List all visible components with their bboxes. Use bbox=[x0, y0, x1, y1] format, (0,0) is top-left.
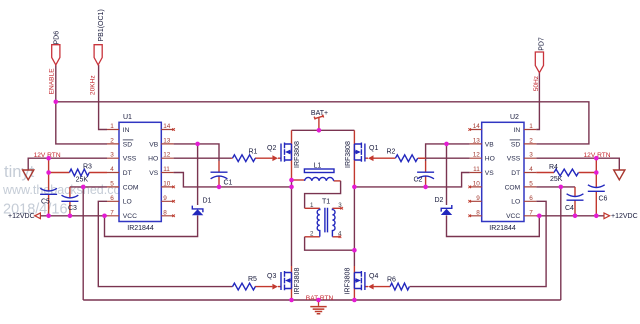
svg-text:2: 2 bbox=[529, 137, 533, 144]
wire 50Hz from PD7 port to U2 pin1 IN bbox=[536, 73, 539, 130]
transistor Q1 IRF3808 bbox=[345, 141, 378, 168]
wire U2 VS to phase B node bbox=[354, 173, 469, 187]
svg-text:DT: DT bbox=[511, 170, 520, 177]
no-connect tick U2 pin9 bbox=[468, 200, 471, 203]
IC U1 IR21844 body bbox=[119, 114, 161, 232]
svg-text:C5: C5 bbox=[41, 199, 50, 206]
diode D1 zener bbox=[192, 198, 212, 216]
capacitor C3 bbox=[61, 195, 78, 212]
wire D1 anode return to VCC bbox=[105, 215, 198, 236]
svg-text:PD7: PD7 bbox=[539, 37, 546, 51]
connector port PD6 bbox=[48, 31, 60, 95]
U1 SD overline bbox=[123, 139, 134, 141]
U2 pin names bbox=[485, 127, 521, 220]
resistor R4 25K bbox=[549, 164, 578, 183]
wire U2 VB to C2 riser bbox=[426, 144, 470, 161]
svg-text:1: 1 bbox=[310, 202, 314, 209]
svg-text:SD: SD bbox=[123, 141, 132, 148]
IC U2 IR21844 body bbox=[482, 114, 524, 232]
svg-text:8: 8 bbox=[163, 209, 167, 216]
svg-text:10: 10 bbox=[473, 180, 481, 187]
no-connect tick U2 pin8 bbox=[468, 215, 471, 218]
svg-text:3: 3 bbox=[529, 152, 533, 159]
svg-text:IN: IN bbox=[123, 127, 130, 134]
svg-text:BAT+: BAT+ bbox=[311, 110, 328, 117]
svg-text:8: 8 bbox=[476, 209, 480, 216]
svg-text:3: 3 bbox=[110, 152, 114, 159]
wire ENABLE vertical from PD6 port to U1 pin2 SD bbox=[56, 65, 107, 144]
resistor R1 bbox=[233, 149, 258, 162]
no-connect tick U2 pin10 bbox=[468, 186, 471, 189]
svg-text:HO: HO bbox=[485, 156, 495, 163]
resistor R2 bbox=[387, 149, 418, 162]
svg-text:5: 5 bbox=[110, 180, 114, 187]
svg-text:VSS: VSS bbox=[507, 156, 521, 163]
wire R1 to Q2 gate bbox=[255, 157, 281, 159]
wire U1 DT R3 row bbox=[49, 172, 107, 174]
connector port PB1(OC1) bbox=[90, 9, 105, 95]
svg-text:11: 11 bbox=[163, 166, 170, 173]
svg-text:+12VDC: +12VDC bbox=[8, 213, 35, 220]
svg-text:VCC: VCC bbox=[123, 213, 137, 220]
capacitor C1 bbox=[211, 172, 233, 186]
svg-text:IRF3808: IRF3808 bbox=[294, 141, 301, 168]
wire U2 LO to R6 bbox=[410, 201, 546, 286]
svg-text:LO: LO bbox=[123, 199, 132, 206]
wire phase B vertical Q1 to Q4 bbox=[353, 130, 355, 187]
svg-text:7: 7 bbox=[110, 209, 114, 216]
svg-text:DT: DT bbox=[123, 170, 132, 177]
svg-text:U1: U1 bbox=[123, 114, 132, 121]
wire U1 HO to R1 bbox=[174, 157, 231, 159]
svg-text:tinyt: tinyt bbox=[4, 163, 35, 181]
svg-text:C3: C3 bbox=[68, 205, 77, 212]
svg-text:VB: VB bbox=[149, 141, 158, 148]
no-connect tick U1 pin9 bbox=[172, 200, 175, 203]
svg-text:HO: HO bbox=[148, 156, 158, 163]
wire BAT RTN bottom bus bbox=[83, 299, 561, 301]
no-connect tick U1 pin14 bbox=[172, 128, 175, 131]
wire 12V RTN left to U1 pin3 VSS bbox=[28, 158, 107, 170]
resistor R3 25K bbox=[69, 164, 92, 184]
capacitor C3 leads bbox=[69, 187, 71, 216]
capacitor C6 leads bbox=[595, 158, 597, 216]
svg-text:4: 4 bbox=[110, 166, 114, 173]
svg-text:C4: C4 bbox=[565, 205, 574, 212]
wire R2 right lead bbox=[418, 157, 426, 159]
svg-text:VCC: VCC bbox=[506, 213, 520, 220]
svg-text:R3: R3 bbox=[83, 164, 92, 171]
svg-text:2: 2 bbox=[310, 230, 314, 237]
svg-text:Q2: Q2 bbox=[267, 145, 276, 152]
U1 pin numbers right bbox=[163, 123, 171, 216]
power port BAT+ bbox=[311, 110, 328, 120]
svg-text:C2: C2 bbox=[414, 177, 423, 184]
svg-text:IN: IN bbox=[514, 127, 521, 134]
wire U1 VS to phase A node bbox=[174, 173, 292, 187]
svg-text:R2: R2 bbox=[387, 149, 396, 156]
svg-text:14: 14 bbox=[473, 123, 481, 130]
svg-text:VS: VS bbox=[149, 170, 158, 177]
capacitor C1 lead bbox=[218, 175, 220, 187]
svg-text:1: 1 bbox=[110, 123, 114, 130]
wire U2 COM riser down to BAT RTN bus bbox=[560, 187, 562, 300]
capacitor C4 leads bbox=[574, 187, 576, 216]
wire D2 anode return to VCC bbox=[447, 215, 540, 236]
U2 pin stubs right 1-7 bbox=[524, 130, 536, 216]
svg-text:10: 10 bbox=[163, 180, 171, 187]
wire U2 DT R4 row bbox=[536, 172, 596, 174]
svg-text:T1: T1 bbox=[322, 198, 330, 205]
wire T1 pin2 to phase B node bbox=[305, 237, 355, 250]
svg-text:LO: LO bbox=[511, 199, 520, 206]
power port 12V RTN right arrow bbox=[584, 152, 625, 180]
svg-text:20KHz: 20KHz bbox=[90, 75, 97, 95]
wire U1 COM to C3 bbox=[70, 186, 107, 188]
capacitor C2 lead bbox=[425, 175, 427, 187]
svg-text:Q4: Q4 bbox=[369, 273, 378, 280]
power port +12VDC right bbox=[604, 213, 638, 220]
U2 SD overline bbox=[510, 139, 521, 141]
svg-text:VS: VS bbox=[485, 170, 494, 177]
no-connect tick U1 pin8 bbox=[172, 215, 175, 218]
U2 pin stubs left 14-8 bbox=[470, 130, 482, 216]
svg-text:COM: COM bbox=[505, 184, 521, 191]
transistor Q2 IRF3808 bbox=[267, 141, 301, 168]
wire BAT+ stub bbox=[318, 118, 320, 131]
wire R5 to Q3 gate bbox=[255, 286, 281, 288]
svg-text:IRF3808: IRF3808 bbox=[345, 268, 352, 295]
transistor Q3 IRF3808 bbox=[267, 268, 301, 295]
svg-text:Q1: Q1 bbox=[369, 145, 378, 152]
svg-text:1: 1 bbox=[529, 123, 533, 130]
svg-text:13: 13 bbox=[473, 137, 481, 144]
svg-text:PB1(OC1): PB1(OC1) bbox=[98, 9, 105, 41]
no-connect tick U1 pin10 bbox=[172, 186, 175, 189]
wire ENABLE/SD bus across top to U2 pin2 SD bbox=[56, 102, 589, 144]
svg-text:R6: R6 bbox=[387, 277, 396, 284]
transistor Q4 IRF3808 bbox=[345, 268, 379, 295]
wire T1 pin1 lead bbox=[305, 207, 320, 209]
resistor R5 bbox=[233, 276, 258, 290]
wire U2 HO to R2 bbox=[419, 157, 470, 159]
svg-text:U2: U2 bbox=[510, 114, 519, 121]
wire 12V RTN right to U2 pin3 VSS bbox=[536, 158, 619, 170]
svg-text:R5: R5 bbox=[248, 276, 257, 283]
svg-text:IRF3808: IRF3808 bbox=[294, 268, 301, 295]
svg-text:4: 4 bbox=[529, 166, 533, 173]
wire phase A vertical Q2 to Q3 bbox=[291, 130, 293, 180]
U2 pin numbers left bbox=[473, 123, 481, 216]
svg-text:COM: COM bbox=[123, 184, 139, 191]
svg-text:12: 12 bbox=[473, 152, 481, 159]
U1 pin stubs right 14-8 bbox=[161, 130, 173, 216]
wire T1 pin3 stub bbox=[332, 207, 341, 209]
svg-text:Q3: Q3 bbox=[267, 273, 276, 280]
svg-text:12: 12 bbox=[163, 152, 171, 159]
svg-text:C1: C1 bbox=[224, 179, 233, 186]
power port +12VDC left bbox=[8, 213, 40, 220]
wire T1 pin2 lead bbox=[305, 236, 320, 238]
U1 pin numbers left bbox=[110, 123, 114, 216]
svg-text:14: 14 bbox=[163, 123, 171, 130]
wire U1 LO to R5 bbox=[98, 201, 232, 286]
svg-text:IR21844: IR21844 bbox=[489, 225, 516, 232]
svg-text:VB: VB bbox=[485, 141, 494, 148]
U1 pin names bbox=[123, 127, 159, 220]
connector port PD7 bbox=[533, 37, 546, 91]
wire 20KHz from PB1 port to U1 pin1 IN bbox=[99, 65, 107, 130]
svg-text:SD: SD bbox=[511, 141, 520, 148]
wire U2 COM to C4 bbox=[536, 186, 575, 188]
capacitor C5 leads bbox=[48, 158, 50, 216]
capacitor C2 bbox=[414, 172, 435, 183]
wire L1 to T1 pin1 staircase bbox=[305, 181, 341, 208]
resistor R6 bbox=[387, 277, 409, 290]
inductor L1 bbox=[304, 163, 334, 181]
svg-text:6: 6 bbox=[529, 195, 533, 202]
wire D1 cathode branch from VB bbox=[197, 144, 199, 205]
wire +12VDC left to U1 pin7 VCC bbox=[40, 215, 107, 217]
U1 pin stubs left 1-7 bbox=[107, 130, 119, 216]
wire BAT+ top drain bus bbox=[292, 129, 355, 131]
svg-text:9: 9 bbox=[163, 195, 167, 202]
power port 12V RTN left arrow bbox=[23, 152, 61, 180]
svg-text:2: 2 bbox=[110, 137, 114, 144]
wire R1 left lead bbox=[231, 157, 233, 159]
svg-text:50Hz: 50Hz bbox=[533, 76, 540, 91]
svg-text:R1: R1 bbox=[249, 149, 258, 156]
svg-text:L1: L1 bbox=[314, 163, 322, 170]
svg-text:9: 9 bbox=[476, 195, 480, 202]
transformer T1 bbox=[310, 198, 343, 238]
svg-text:D2: D2 bbox=[435, 197, 444, 204]
capacitor C4 bbox=[565, 194, 584, 212]
wire T1 pin4 stub bbox=[332, 236, 340, 238]
wire L1 left lead to phase A bbox=[292, 179, 305, 181]
svg-text:ENABLE: ENABLE bbox=[48, 68, 55, 95]
capacitor C6 bbox=[588, 185, 608, 203]
wire U1 VB to C1 riser bbox=[174, 144, 219, 161]
svg-text:13: 13 bbox=[163, 137, 171, 144]
svg-text:7: 7 bbox=[529, 209, 533, 216]
wire L1 right lead bbox=[334, 180, 341, 182]
svg-text:C6: C6 bbox=[599, 196, 608, 203]
no-connect tick U2 pin14 bbox=[468, 128, 471, 131]
svg-text:IRF3808: IRF3808 bbox=[345, 141, 352, 168]
wire R2 to Q1 gate bbox=[365, 157, 396, 159]
svg-text:5: 5 bbox=[529, 180, 533, 187]
svg-text:PD6: PD6 bbox=[54, 31, 61, 45]
wire U2 pin7 VCC to +12VDC right bbox=[536, 215, 604, 217]
capacitor C5 bbox=[40, 188, 57, 205]
wire R6 to Q4 gate bbox=[365, 286, 390, 288]
svg-text:25K: 25K bbox=[76, 177, 89, 184]
svg-text:R4: R4 bbox=[549, 164, 558, 171]
svg-text:25K: 25K bbox=[550, 176, 563, 183]
svg-text:IR21844: IR21844 bbox=[127, 225, 154, 232]
svg-text:6: 6 bbox=[110, 195, 114, 202]
U2 pin numbers right bbox=[529, 123, 533, 216]
svg-text:+12VDC: +12VDC bbox=[611, 213, 638, 220]
diode D2 zener bbox=[435, 197, 453, 215]
wire U1 COM riser down to BAT RTN bus bbox=[82, 187, 84, 300]
wire D2 cathode branch from VB bbox=[446, 144, 448, 205]
svg-text:D1: D1 bbox=[203, 198, 212, 205]
svg-text:11: 11 bbox=[473, 166, 480, 173]
power port BAT RTN ground bbox=[306, 295, 334, 314]
svg-text:VSS: VSS bbox=[123, 156, 137, 163]
